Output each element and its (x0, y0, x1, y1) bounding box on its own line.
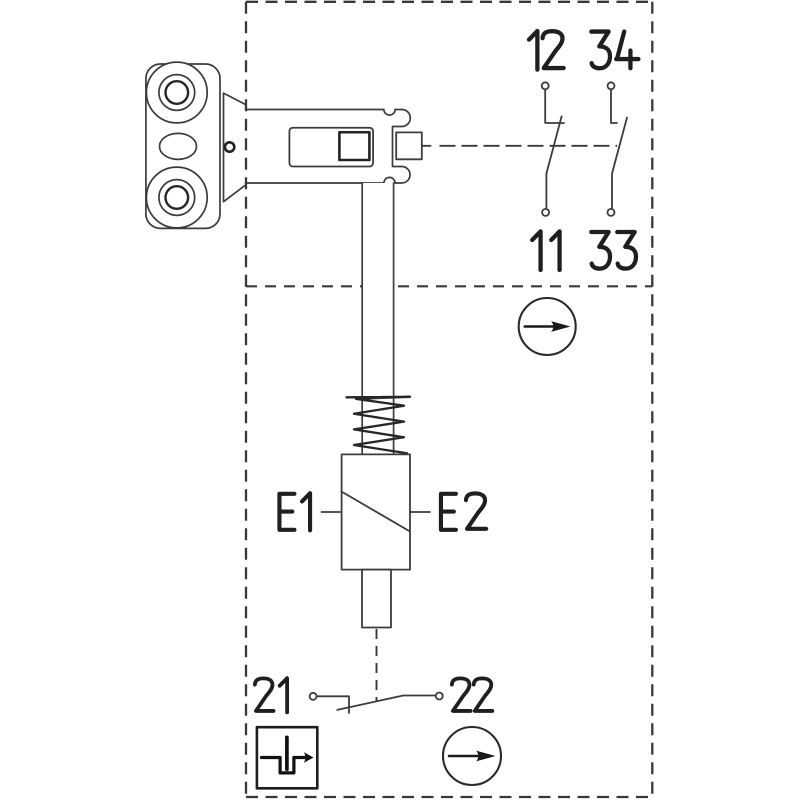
label 11 (532, 231, 559, 270)
actuator bottom roller middle (159, 180, 195, 216)
stub from plunger cap (422, 145, 431, 147)
lead E2 (410, 511, 430, 513)
enclosure dashed frame (246, 2, 652, 797)
dashed link plunger to contact 21-22 (376, 629, 378, 701)
contact 34-33 (NO) (608, 82, 628, 216)
actuator key body (146, 64, 220, 228)
label E2 (441, 493, 486, 529)
switch head arm (246, 110, 411, 184)
actuator insertion icon (257, 727, 317, 788)
actuation direction symbol upper (519, 298, 576, 355)
solenoid box E1-E2 (342, 454, 410, 569)
solenoid plunger (362, 570, 391, 628)
label 33 (591, 232, 636, 269)
label E1 (279, 493, 310, 530)
actuator wedge flange (224, 93, 246, 202)
label 22 (452, 678, 492, 711)
solenoid diagonal (342, 492, 410, 532)
label 12 (529, 31, 564, 70)
contact plunger cap square (396, 132, 422, 159)
contact 21-22 (310, 693, 443, 714)
cam slot in arm (289, 128, 373, 167)
actuator bottom roller outer (146, 167, 207, 228)
divider dashed line between head and body sections (246, 285, 652, 287)
plunger rod (362, 183, 393, 454)
spring (347, 397, 411, 454)
actuator top roller inner (166, 81, 189, 104)
lead E1 (322, 511, 342, 513)
contact 12-11 (NC) (542, 82, 564, 216)
actuator pivot pin (225, 142, 234, 151)
actuator top roller outer (146, 62, 207, 123)
actuation direction symbol lower (443, 727, 501, 785)
dashed link from plunger cap to contacts (440, 145, 618, 147)
label 21 (255, 678, 287, 712)
actuator middle slot ellipse (160, 133, 197, 159)
actuator bottom roller inner (166, 186, 189, 209)
actuator top roller middle (159, 75, 195, 111)
cam follower square (339, 132, 369, 160)
label 34 (591, 32, 638, 69)
